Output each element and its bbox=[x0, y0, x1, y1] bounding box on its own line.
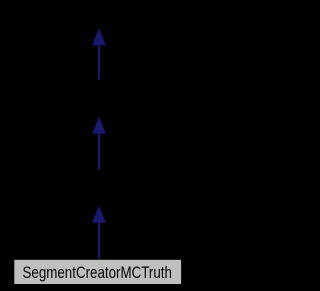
svg-text:SegmentCreatorMCTruth: SegmentCreatorMCTruth bbox=[23, 264, 172, 282]
current class node SegmentCreatorMCTruth (grey box) bbox=[14, 259, 182, 284]
doxygen inheritance graph (cropped, transparent background flattened to black) bbox=[0, 0, 197, 291]
parent class node (black box, third level) bbox=[85, 170, 113, 207]
wire/shaft bbox=[98, 223, 100, 260]
parent class node (black box, second level) bbox=[85, 80, 113, 118]
arrowhead bbox=[93, 29, 105, 45]
arrowhead bbox=[93, 118, 105, 134]
inheritance arrow (edge from SegmentCreatorMCTruth to its base class) bbox=[93, 207, 105, 259]
inheritance arrow (edge to topmost cropped parent class) bbox=[93, 29, 105, 80]
inheritance arrow (edge between second and third level) bbox=[93, 118, 105, 171]
wire/shaft bbox=[98, 44, 100, 80]
arrowhead bbox=[93, 207, 105, 223]
wire/shaft bbox=[98, 133, 100, 171]
